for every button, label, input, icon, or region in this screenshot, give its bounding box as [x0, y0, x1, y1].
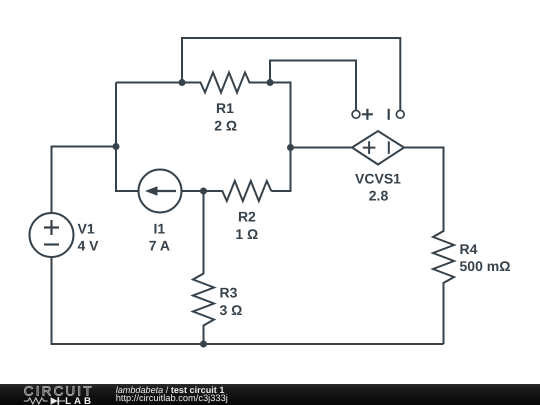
- svg-text:LAB: LAB: [65, 396, 94, 405]
- svg-text:R2: R2: [238, 208, 256, 224]
- svg-text:http://circuitlab.com/c3j333j: http://circuitlab.com/c3j333j: [116, 393, 228, 403]
- svg-text:R4: R4: [460, 241, 478, 257]
- svg-text:1 Ω: 1 Ω: [235, 226, 258, 242]
- svg-text:500 mΩ: 500 mΩ: [460, 258, 511, 274]
- svg-text:R3: R3: [220, 284, 238, 300]
- svg-text:2 Ω: 2 Ω: [214, 117, 237, 133]
- svg-text:V1: V1: [78, 221, 95, 237]
- svg-text:4 V: 4 V: [78, 238, 100, 254]
- svg-text:2.8: 2.8: [369, 188, 389, 204]
- svg-text:I1: I1: [154, 221, 166, 237]
- svg-text:R1: R1: [216, 100, 234, 116]
- svg-text:3 Ω: 3 Ω: [220, 302, 243, 318]
- svg-text:7 A: 7 A: [149, 237, 170, 253]
- svg-text:VCVS1: VCVS1: [355, 171, 401, 187]
